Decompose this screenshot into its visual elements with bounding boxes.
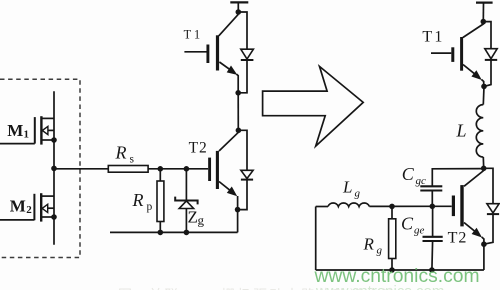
label T2 (left): [189, 140, 208, 157]
capacitor Cgc: [420, 186, 442, 190]
capacitor Cge: [423, 237, 443, 241]
svg-text:L: L: [342, 178, 352, 197]
junction dot Zg top: [184, 166, 190, 172]
junction dot Cge bottom: [429, 267, 435, 273]
svg-text:Z: Z: [188, 208, 198, 227]
wire: Lg to gate node: [369, 205, 432, 207]
svg-text:g: g: [377, 245, 383, 257]
junction dot left mid rail: [235, 90, 241, 96]
svg-text:T2: T2: [448, 229, 468, 246]
inductor Lg: [328, 203, 369, 207]
wire: mid rail: [237, 93, 239, 131]
svg-text:T1: T1: [422, 29, 444, 46]
junction dot M1 source: [51, 137, 57, 143]
svg-text:g: g: [355, 188, 361, 200]
label T1 (right): [422, 29, 444, 46]
svg-text:M: M: [7, 121, 23, 140]
svg-text:1: 1: [24, 129, 30, 141]
wire: emitter to inductor L: [482, 86, 485, 104]
freewheel diode D4 (right T2): [484, 168, 499, 244]
wire: node to Cgc: [432, 169, 483, 187]
wire: Rg top lead: [391, 206, 393, 218]
label Cge: [401, 214, 425, 237]
node dot left T2 collector: [236, 128, 242, 134]
label M1: [7, 121, 29, 141]
wire: bar to T1 collector node: [237, 2, 239, 13]
wire: Rp bottom lead: [159, 222, 161, 233]
wire: bar to right T1 collector node: [482, 3, 484, 22]
junction dot gate node: [430, 204, 436, 210]
freewheel diode D3 (right T1): [483, 22, 497, 87]
wire: emitter to bottom rail: [237, 210, 239, 233]
svg-text:T2: T2: [189, 140, 208, 157]
junction dot right T2 emitter: [481, 241, 487, 247]
junction dot gate tap: [51, 166, 57, 172]
supply bar (right T1 top): [476, 1, 493, 3]
svg-text:gc: gc: [416, 175, 427, 187]
label Rs: [115, 143, 135, 166]
transistor T2 (left IGBT): [210, 132, 239, 209]
dashed enclosure box (driver block): [0, 79, 80, 257]
label Rp: [132, 190, 153, 213]
junction dot Rp bottom: [158, 230, 164, 236]
junction dot Rg top: [389, 204, 395, 210]
label Lg: [342, 178, 361, 200]
label Zg: [188, 208, 205, 228]
wire: Cge bottom lead: [431, 241, 434, 270]
label L: [456, 121, 467, 141]
wire: Rp top lead: [159, 169, 161, 181]
bottom rail (right circuit): [316, 269, 484, 271]
junction dot right T1 emitter: [481, 84, 487, 90]
wire: emitter down to rail: [483, 244, 485, 270]
svg-text:g: g: [198, 213, 205, 228]
node dot right T1 collector: [481, 19, 487, 25]
inductor L: [476, 105, 483, 157]
svg-text:R: R: [132, 190, 144, 210]
watermark www.cntronics.com: [315, 266, 480, 288]
resistor Rg: [389, 219, 396, 259]
faint caption sliver at bottom: [118, 285, 397, 290]
svg-text:C: C: [402, 164, 415, 184]
freewheel diode D2 (left): [238, 130, 254, 209]
svg-text:C: C: [401, 214, 414, 234]
label T1 (left): [184, 28, 204, 42]
transistor M1: [0, 116, 54, 144]
label M2: [10, 197, 32, 217]
junction dot Zg bottom: [184, 230, 190, 236]
transistor T2 (right IGBT): [432, 171, 484, 245]
svg-text:R: R: [363, 235, 375, 254]
resistor Rp: [157, 181, 164, 222]
svg-text:M: M: [10, 197, 26, 216]
svg-text:p: p: [147, 201, 153, 213]
wire: Cge top lead: [432, 206, 434, 237]
label Cgc: [402, 164, 426, 187]
freewheel diode D1 (left): [238, 12, 253, 93]
block arrow (transform symbol): [263, 66, 364, 146]
svg-text:ge: ge: [414, 225, 425, 237]
wire: Rs to gate node: [148, 168, 208, 170]
junction dot Rg bottom: [389, 267, 395, 273]
node dot L / T2 collector: [481, 166, 487, 172]
svg-text:R: R: [115, 143, 127, 163]
node dot left T1 collector: [236, 9, 242, 15]
junction dot left T2 emitter: [235, 207, 241, 213]
bottom rail (left circuit): [110, 231, 238, 233]
junction dot Rp top: [158, 166, 164, 172]
wire: L to node: [482, 157, 484, 168]
transistor T1 (left IGBT): [184, 14, 238, 93]
wire: Cgc to gate node: [431, 191, 433, 207]
label Rg: [363, 235, 383, 257]
resistor Rs: [108, 166, 148, 173]
wire: tap to Rs: [54, 168, 108, 170]
faint watermark second row: [316, 283, 444, 290]
wire: riser to Lg: [316, 206, 328, 208]
label T2 (right): [448, 229, 468, 246]
svg-text:2: 2: [26, 204, 32, 216]
supply bar (left T1 top): [230, 1, 248, 3]
svg-text:L: L: [456, 121, 467, 141]
junction dot M2 source: [51, 214, 57, 220]
transistor M2: [0, 193, 54, 221]
zener diode Zg: [175, 169, 197, 233]
transistor T1 (right IGBT): [431, 23, 484, 86]
node rail (M1/M2 common vertical): [53, 91, 55, 245]
wire: left riser: [315, 207, 317, 271]
wire: Rg bottom lead: [391, 259, 393, 271]
svg-text:s: s: [130, 154, 135, 166]
svg-text:T1: T1: [184, 28, 204, 42]
